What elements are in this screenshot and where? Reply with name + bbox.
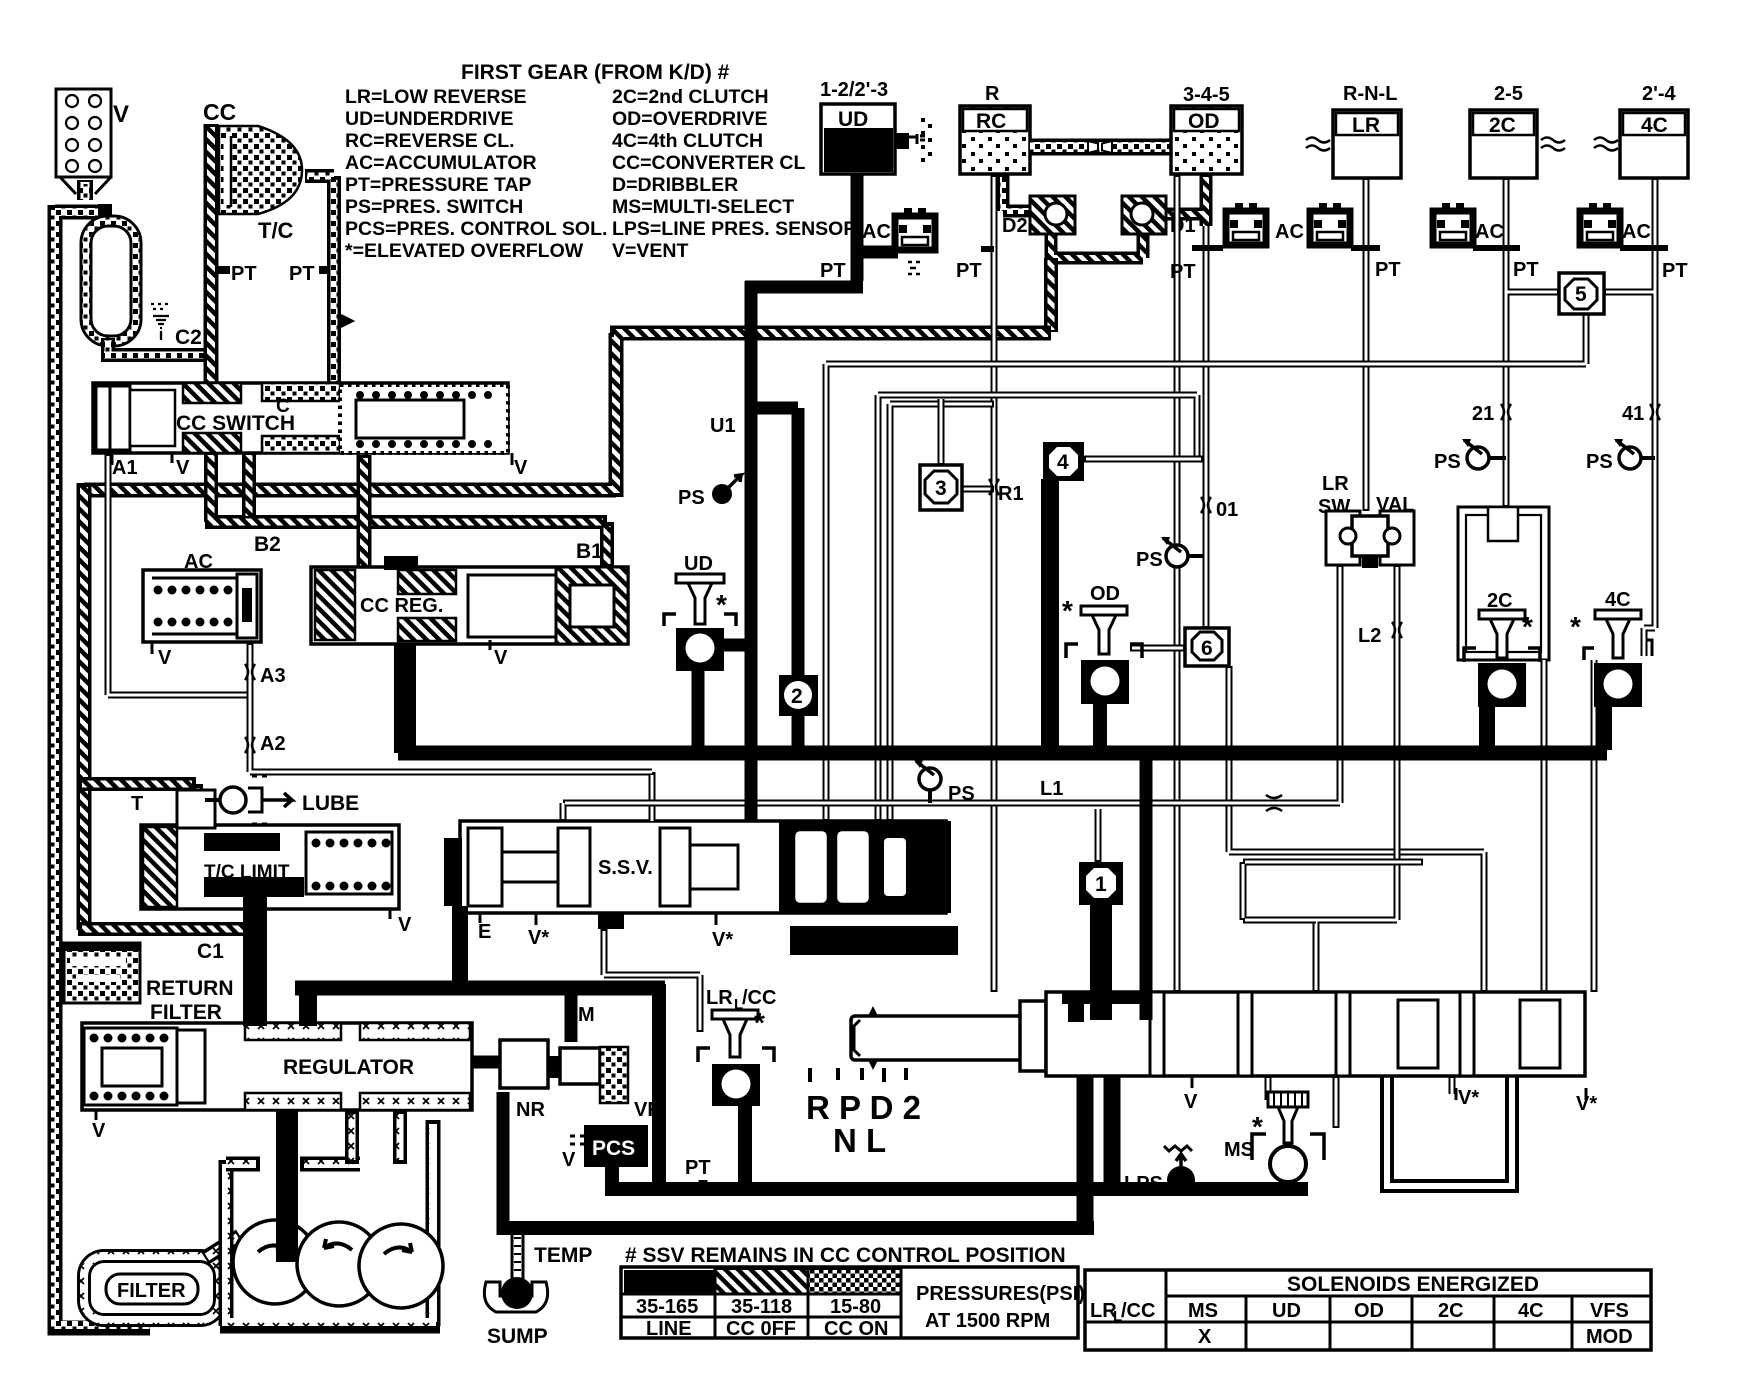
A3/A2 line to SSV E port	[250, 642, 652, 821]
4C solenoid drop	[1596, 707, 1612, 750]
TEMP thermometer	[512, 1230, 592, 1282]
svg-text:L1: L1	[1040, 778, 1063, 800]
svg-text:CC SWITCH: CC SWITCH	[176, 412, 295, 435]
svg-text:2: 2	[791, 685, 803, 708]
svg-text:L2: L2	[1358, 625, 1381, 647]
PT tee bars on clutch lines	[981, 248, 1668, 249]
svg-text:C2: C2	[175, 326, 202, 349]
svg-text:4C: 4C	[1605, 589, 1631, 611]
CC SWITCH valve body	[93, 383, 528, 479]
AC accumulator (big, left)	[143, 551, 261, 669]
node 1	[1079, 862, 1123, 905]
PS pressure switches	[678, 475, 741, 509]
svg-text:UD: UD	[1272, 1300, 1301, 1322]
svg-text:RC=REVERSE CL.: RC=REVERSE CL.	[345, 130, 515, 152]
svg-text:V=VENT: V=VENT	[612, 240, 688, 262]
svg-text:UD: UD	[684, 553, 713, 575]
svg-text:21: 21	[1472, 403, 1494, 425]
U1 branch to node 2	[745, 408, 798, 760]
svg-text:PS: PS	[1136, 549, 1163, 571]
svg-text:CC ON: CC ON	[824, 1318, 888, 1340]
node 5	[1559, 273, 1604, 314]
MS solenoid	[1224, 1092, 1324, 1182]
RC long line to manual valve	[991, 174, 998, 992]
pump feed drop	[276, 1110, 298, 1262]
svg-text:2C: 2C	[1489, 114, 1516, 137]
svg-text:AC: AC	[1475, 221, 1504, 243]
2-5 accumulator box	[1458, 507, 1549, 660]
svg-text:PT: PT	[1513, 259, 1539, 281]
svg-text:15-80: 15-80	[830, 1296, 881, 1318]
svg-text:R: R	[985, 83, 1000, 105]
2-5 box to valve	[1541, 660, 1548, 992]
svg-text:LPS=LINE PRES. SENSOR: LPS=LINE PRES. SENSOR	[612, 218, 857, 240]
LPS sensor	[1124, 1146, 1195, 1195]
thin double lines network	[108, 174, 1655, 1191]
node 4 right link	[1084, 456, 1203, 463]
dribbler D2	[1030, 196, 1075, 234]
svg-text:2C: 2C	[1438, 1300, 1464, 1322]
sump x-hatch loop	[220, 1120, 440, 1326]
svg-text:FILTER: FILTER	[117, 1280, 186, 1302]
svg-text:PT: PT	[289, 263, 315, 285]
svg-text:01: 01	[1216, 499, 1238, 521]
svg-text:MS: MS	[1224, 1139, 1254, 1161]
2C solenoid drop	[1479, 707, 1495, 750]
svg-text:PT: PT	[1375, 259, 1401, 281]
svg-text:S.S.V.: S.S.V.	[598, 857, 653, 879]
svg-text:TEMP: TEMP	[534, 1244, 592, 1267]
svg-text:V: V	[562, 1149, 576, 1171]
svg-text:V: V	[1184, 1091, 1198, 1113]
svg-text:OD: OD	[1090, 583, 1120, 605]
svg-text:5: 5	[1575, 283, 1587, 306]
svg-text:LINE: LINE	[646, 1318, 692, 1340]
manual valve rod and handle	[851, 1001, 1046, 1071]
NR drop	[497, 1092, 510, 1235]
svg-text:R P D 2: R P D 2	[806, 1089, 921, 1126]
A1 line	[108, 453, 250, 695]
4C line	[1604, 178, 1655, 656]
svg-text:3: 3	[935, 477, 947, 500]
LRL/CC drop	[738, 1100, 752, 1196]
node 6	[1185, 628, 1229, 666]
svg-text:PT: PT	[820, 260, 846, 282]
hatched T-feed line	[78, 784, 196, 828]
svg-text:NR: NR	[516, 1099, 545, 1121]
pair P3 from RC line	[890, 404, 994, 821]
legend column 1	[345, 86, 607, 262]
svg-text:D=DRIBBLER: D=DRIBBLER	[612, 174, 738, 196]
SSV bottom to LRL/CC	[604, 929, 700, 1032]
2C line	[1506, 178, 1559, 507]
C2 dribbler icon	[151, 304, 169, 340]
svg-text:V: V	[398, 914, 412, 936]
svg-text:4C: 4C	[1641, 114, 1668, 137]
T/C LIMIT valve	[131, 790, 412, 936]
stippled left header pipe	[55, 205, 150, 1328]
dotted vent under UD AC	[908, 262, 920, 274]
svg-text:PS: PS	[948, 783, 975, 805]
PCS drop	[605, 1165, 619, 1196]
manual valve ticks	[810, 1068, 906, 1082]
OD solenoid	[1062, 583, 1142, 704]
node 4	[1043, 442, 1084, 481]
svg-text:CC: CC	[203, 99, 236, 125]
svg-text:PS: PS	[1586, 451, 1613, 473]
svg-text:V*: V*	[1458, 1087, 1479, 1109]
svg-text:B1: B1	[576, 540, 603, 563]
manual valve down pipes	[1085, 1076, 1112, 1235]
SUMP bowl	[484, 1277, 547, 1348]
svg-text:FILTER: FILTER	[150, 1001, 222, 1024]
svg-text:2C=2nd CLUTCH: 2C=2nd CLUTCH	[612, 86, 769, 108]
node 4 drop	[1041, 479, 1059, 753]
stipple D2 to D1 link	[1051, 232, 1143, 258]
pressures legend table	[621, 1267, 1085, 1340]
svg-text:VFS: VFS	[1590, 1300, 1629, 1322]
svg-text:V*: V*	[712, 929, 733, 951]
PT stubs on thick lines	[699, 1180, 708, 1189]
svg-text:V: V	[113, 101, 129, 128]
MS feed stub	[1268, 1076, 1336, 1128]
svg-text:R-N-L: R-N-L	[1343, 83, 1397, 105]
svg-text:E: E	[478, 921, 491, 943]
svg-text:B2: B2	[254, 533, 281, 556]
svg-text:D2: D2	[1002, 215, 1028, 237]
svg-text:V: V	[514, 457, 528, 479]
svg-text:LUBE: LUBE	[302, 792, 359, 815]
thick black line network	[255, 174, 1607, 1262]
4C bracket to valve	[1591, 660, 1598, 992]
UD spray nozzle	[895, 133, 909, 149]
OD long line to manual valve	[1174, 174, 1181, 992]
svg-text:3-4-5: 3-4-5	[1183, 84, 1230, 106]
dribbler D1	[1122, 196, 1166, 234]
svg-text:PRESSURES(PSI): PRESSURES(PSI)	[916, 1283, 1085, 1305]
L1 line	[563, 565, 1340, 821]
svg-text:CC REG.: CC REG.	[360, 595, 443, 617]
AC icons	[895, 208, 935, 250]
svg-text:35-118: 35-118	[731, 1296, 792, 1318]
T/C PT taps	[218, 266, 230, 274]
node 1 riser	[1095, 809, 1102, 862]
node 3 riser and link	[941, 399, 994, 489]
svg-text:UD=UNDERDRIVE: UD=UNDERDRIVE	[345, 108, 513, 130]
stipple D1 to OD drop	[1166, 174, 1206, 226]
T/C LIMIT outlet C1 drop	[243, 895, 267, 1026]
svg-text:MS=MULTI-SELECT: MS=MULTI-SELECT	[612, 196, 794, 218]
svg-text:A1: A1	[112, 457, 138, 479]
svg-text:A3: A3	[260, 665, 286, 687]
braid middle pair	[1243, 862, 1423, 920]
svg-text:AT 1500 RPM: AT 1500 RPM	[925, 1310, 1050, 1332]
OD solenoid drop	[1093, 702, 1107, 753]
CC REG outlet drop	[394, 644, 416, 753]
svg-text:AC: AC	[1622, 221, 1651, 243]
svg-text:M: M	[578, 1004, 595, 1026]
svg-text:# SSV REMAINS IN CC CONTROL PO: # SSV REMAINS IN CC CONTROL POSITION	[625, 1244, 1066, 1267]
LRL/CC solenoid	[698, 987, 776, 1106]
svg-text:V*: V*	[1576, 1093, 1597, 1115]
NR / VF / PCS assembly	[500, 1004, 660, 1171]
long pair P1 to node 5	[826, 312, 1586, 821]
pump circles	[233, 1220, 443, 1308]
legend column 2	[612, 86, 857, 262]
MS drop	[1280, 1178, 1297, 1196]
svg-text:*: *	[716, 589, 727, 620]
UD solenoid drop and stub	[698, 645, 753, 753]
svg-text:PT: PT	[1170, 261, 1196, 283]
node 6 left link	[1130, 645, 1185, 652]
svg-text:*=ELEVATED OVERFLOW: *=ELEVATED OVERFLOW	[345, 240, 584, 262]
solenoids energized table	[1085, 1270, 1651, 1350]
hatched B2 line H2	[205, 452, 607, 567]
vent stack top left	[56, 89, 129, 194]
svg-text:PCS: PCS	[592, 1137, 635, 1160]
svg-text:RETURN: RETURN	[146, 977, 234, 1000]
svg-text:SOLENOIDS ENERGIZED: SOLENOIDS ENERGIZED	[1287, 1273, 1539, 1296]
svg-text:PT: PT	[685, 1157, 711, 1179]
svg-text:6: 6	[1201, 637, 1213, 660]
L2 line	[1316, 565, 1397, 992]
svg-text:MOD: MOD	[1586, 1326, 1633, 1348]
T/C left wall (hatched)	[204, 124, 219, 388]
main pressure line	[398, 746, 1607, 761]
node 2	[779, 675, 818, 716]
svg-text:OD: OD	[1188, 110, 1220, 133]
svg-text:2'-4: 2'-4	[1642, 83, 1677, 105]
svg-text:PS: PS	[678, 487, 705, 509]
svg-text:RC: RC	[976, 110, 1006, 133]
FILTER (pickup)	[84, 1236, 240, 1320]
2C solenoid	[1464, 590, 1540, 707]
svg-text:1-2/2'-3: 1-2/2'-3	[820, 79, 888, 101]
regulator to NR stub	[472, 1056, 500, 1069]
svg-text:*: *	[1570, 611, 1581, 642]
svg-text:PCS=PRES. CONTROL SOL.: PCS=PRES. CONTROL SOL.	[345, 218, 607, 240]
svg-text:PT=PRESSURE TAP: PT=PRESSURE TAP	[345, 174, 532, 196]
long hatched line H1 (left vertical + spans under CC SWITCH + riser + east run)	[84, 333, 1051, 497]
svg-text:CC 0FF: CC 0FF	[726, 1318, 796, 1340]
svg-text:1: 1	[1095, 873, 1107, 896]
svg-text:4C=4th CLUTCH: 4C=4th CLUTCH	[612, 130, 763, 152]
svg-text:/CC: /CC	[742, 987, 776, 1009]
svg-text:U1: U1	[710, 415, 736, 437]
svg-text:C1: C1	[197, 940, 224, 963]
svg-text:UD: UD	[838, 108, 868, 131]
svg-text:LR: LR	[1352, 114, 1380, 137]
svg-text:4C: 4C	[1518, 1300, 1544, 1322]
svg-text:V: V	[176, 457, 190, 479]
UD solenoid (star elevated overflow)	[664, 553, 736, 671]
svg-text:PS: PS	[1434, 451, 1461, 473]
node 6 braid to valve	[1229, 666, 1484, 992]
svg-text:R1: R1	[998, 483, 1024, 505]
svg-text:T: T	[131, 793, 143, 815]
S.S.V. valve	[444, 821, 958, 955]
svg-text:LR=LOW REVERSE: LR=LOW REVERSE	[345, 86, 526, 108]
LUBE check valve	[205, 776, 359, 824]
svg-text:2-5: 2-5	[1494, 83, 1523, 105]
main line to manual valve	[1140, 753, 1153, 1020]
svg-text:AC=ACCUMULATOR: AC=ACCUMULATOR	[345, 152, 537, 174]
stippled vent drain pipe	[77, 180, 93, 200]
svg-text:OD=OVERDRIVE: OD=OVERDRIVE	[612, 108, 768, 130]
LR line	[1363, 178, 1370, 511]
svg-text:FIRST GEAR (FROM K/D) #: FIRST GEAR (FROM K/D) #	[461, 61, 730, 84]
svg-text:*: *	[1252, 1111, 1263, 1142]
svg-text:*: *	[754, 1007, 765, 1038]
coupling symbols on lines	[245, 404, 1660, 811]
svg-text:4: 4	[1057, 451, 1069, 474]
svg-text:PT: PT	[956, 260, 982, 282]
svg-text:V: V	[158, 647, 172, 669]
svg-text:A2: A2	[260, 733, 286, 755]
svg-text:PT: PT	[1662, 260, 1688, 282]
LR SW VAL valve	[1318, 473, 1415, 568]
left hatched vertical	[77, 483, 92, 930]
svg-text:/CC: /CC	[1121, 1300, 1155, 1322]
T/C right wall (stippled)	[305, 176, 334, 390]
bottom line upper	[605, 1182, 1308, 1196]
svg-text:LR: LR	[1322, 473, 1349, 495]
RETURN FILTER	[64, 943, 234, 1024]
svg-text:MS: MS	[1188, 1300, 1218, 1322]
node 1 to manual valve	[1090, 903, 1112, 1020]
svg-text:35-165: 35-165	[636, 1296, 698, 1318]
svg-text:PT: PT	[231, 263, 257, 285]
svg-text:PS=PRES. SWITCH: PS=PRES. SWITCH	[345, 196, 523, 218]
cooler capsule	[98, 204, 112, 224]
svg-text:*: *	[1062, 595, 1073, 626]
stipple drop RC to D2	[1003, 174, 1030, 211]
svg-text:V*: V*	[528, 927, 549, 949]
C2 stippled line to T/C	[101, 338, 208, 356]
VF/M drop	[652, 984, 666, 1196]
svg-text:OD: OD	[1354, 1300, 1384, 1322]
CC REG valve	[311, 556, 628, 669]
pair P2 to node 4	[878, 395, 1197, 821]
node 3	[920, 465, 962, 510]
svg-text:X: X	[1198, 1326, 1212, 1348]
UD feed + U1 run	[745, 174, 898, 821]
4C solenoid	[1570, 589, 1642, 707]
svg-text:CC=CONVERTER CL: CC=CONVERTER CL	[612, 152, 805, 174]
T/C dome (stippled)	[219, 126, 302, 214]
svg-text:REGULATOR: REGULATOR	[283, 1056, 414, 1079]
svg-text:AC: AC	[1275, 221, 1304, 243]
svg-text:V: V	[494, 647, 508, 669]
svg-text:LR: LR	[706, 987, 733, 1009]
E exhaust header to regulator and M circuit	[295, 981, 665, 996]
svg-text:T/C LIMIT: T/C LIMIT	[204, 862, 290, 883]
hatched C1 bottom line	[78, 922, 250, 936]
svg-text:V: V	[92, 1120, 106, 1142]
manual valve body	[1046, 992, 1597, 1115]
REGULATOR valve	[82, 1023, 472, 1142]
under-valve loop	[1382, 1076, 1517, 1191]
svg-text:AC: AC	[862, 221, 891, 243]
svg-text:N L: N L	[833, 1122, 886, 1159]
hatched drop D2 to long hatch line	[1044, 258, 1058, 332]
svg-text:T/C: T/C	[258, 218, 294, 243]
svg-text:LPS: LPS	[1124, 1173, 1163, 1195]
svg-text:41: 41	[1622, 403, 1644, 425]
bottom line lower	[503, 1221, 1094, 1235]
OD to node 6 line	[1203, 226, 1210, 628]
4C solenoid bracket	[1644, 640, 1652, 656]
svg-text:*: *	[1522, 611, 1533, 642]
dotted pipe RC to OD	[1030, 139, 1171, 156]
svg-text:SUMP: SUMP	[487, 1325, 548, 1348]
hatched vertical CC SWITCH to CC REG	[357, 455, 372, 572]
